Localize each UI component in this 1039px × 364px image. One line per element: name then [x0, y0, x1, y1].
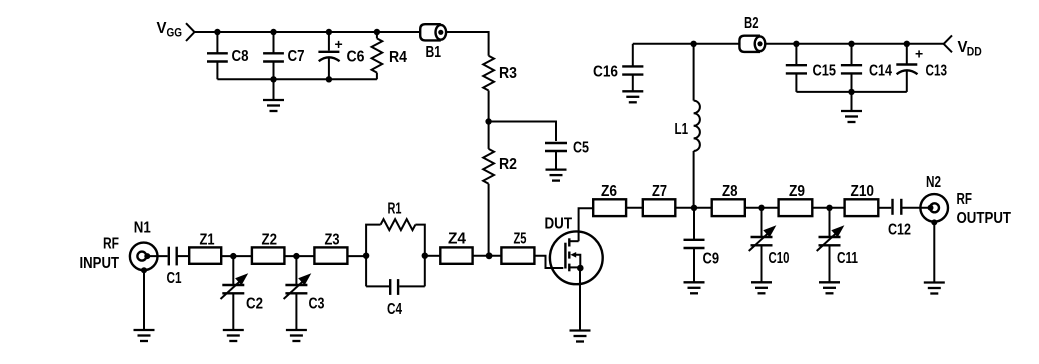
resistor R4: [372, 32, 383, 79]
svg-text:C7: C7: [288, 48, 305, 65]
svg-text:C5: C5: [573, 140, 589, 157]
connector N2: [920, 194, 948, 225]
capacitor C15: [786, 44, 807, 92]
impedance Z6: [593, 199, 626, 216]
svg-text:V: V: [157, 20, 167, 37]
wire C1 to Z1: [177, 255, 189, 257]
capacitor C16: [622, 44, 643, 92]
impedance Z1: [189, 247, 221, 263]
node C14 top: [848, 41, 854, 47]
svg-text:N1: N1: [134, 220, 151, 237]
wire R1/C4 left branch: [366, 225, 381, 287]
svg-text:C8: C8: [232, 48, 249, 65]
node C8 top: [214, 29, 220, 35]
node R1/C4 right: [422, 253, 428, 259]
svg-text:RF: RF: [957, 191, 973, 208]
resistor R1: [381, 219, 416, 230]
svg-text:C16: C16: [593, 64, 618, 81]
svg-text:C10: C10: [769, 250, 790, 267]
variable capacitor C11: [817, 208, 845, 282]
node R3/R2/C5: [485, 118, 491, 124]
node R4 top: [374, 29, 380, 35]
svg-text:Z3: Z3: [325, 232, 340, 249]
wire node to R2: [488, 122, 490, 149]
wire R2 down to input line: [488, 184, 490, 256]
svg-text:R3: R3: [499, 65, 517, 82]
ground V_GG rail: [263, 100, 284, 111]
wire Z5 to DUT gate: [534, 256, 563, 268]
capacitor C13 (polarized): [896, 44, 917, 92]
wire Z8 to Z9: [745, 207, 779, 209]
ground N1: [134, 330, 155, 341]
ground C11: [819, 282, 840, 293]
capacitor C9: [684, 208, 705, 282]
wire L1 lower: [693, 151, 695, 208]
svg-text:C13: C13: [926, 63, 948, 80]
svg-text:C3: C3: [309, 296, 325, 313]
connector N1: [130, 243, 158, 274]
capacitor C5: [545, 143, 567, 170]
svg-text:R4: R4: [389, 49, 407, 66]
wire Z6 to Z7: [626, 207, 643, 209]
node C7 top: [270, 29, 276, 35]
capacitor C4: [390, 279, 398, 295]
wire R1/C4 right branch: [415, 225, 424, 287]
variable capacitor C2: [221, 256, 249, 330]
ground DUT source: [570, 331, 591, 342]
svg-text:C1: C1: [167, 270, 182, 287]
node bottom rail C7: [270, 76, 276, 82]
wire B1 to corner and down to R3: [445, 32, 488, 56]
svg-text:C11: C11: [837, 250, 858, 267]
svg-text:+: +: [915, 46, 923, 62]
impedance Z5: [501, 247, 534, 263]
transistor DUT (MOSFET): [550, 208, 603, 284]
svg-text:B2: B2: [744, 15, 759, 32]
node C13 top: [904, 41, 910, 47]
wire DUT source to ground: [579, 268, 581, 331]
impedance Z2: [252, 247, 285, 263]
inductor L1: [694, 101, 700, 151]
svg-text:Z1: Z1: [200, 232, 215, 249]
node C2: [230, 253, 236, 259]
node R2 junction: [486, 252, 493, 259]
svg-text:R2: R2: [499, 156, 517, 173]
capacitor C7: [263, 32, 284, 79]
svg-text:Z5: Z5: [514, 231, 527, 248]
svg-text:Z7: Z7: [652, 183, 667, 200]
node C11: [826, 205, 832, 211]
wire N2 to ground: [933, 222, 935, 282]
wire node to Z4: [425, 255, 441, 257]
svg-text:GG: GG: [167, 26, 183, 40]
capacitor C14: [841, 44, 862, 92]
ground C10: [751, 282, 772, 293]
capacitor C6 (polarized): [318, 32, 339, 79]
svg-text:OUTPUT: OUTPUT: [957, 210, 1012, 227]
svg-text:B1: B1: [426, 44, 442, 61]
ground C5: [546, 170, 567, 181]
ferrite bead B1: [420, 24, 446, 40]
wire Z4 to Z5: [473, 255, 502, 257]
ground C2: [223, 330, 244, 341]
svg-text:N2: N2: [926, 174, 941, 191]
ground C3: [286, 330, 307, 341]
resistor R2: [483, 149, 494, 184]
svg-text:C15: C15: [813, 63, 837, 80]
svg-text:C4: C4: [387, 301, 402, 318]
node C10: [758, 205, 764, 211]
wire V_GG rail: [195, 31, 421, 33]
wire L1 upper: [693, 44, 695, 101]
svg-text:Z2: Z2: [262, 232, 278, 249]
svg-text:C6: C6: [347, 49, 365, 66]
node L1/C9: [691, 205, 697, 211]
capacitor C1: [169, 247, 177, 266]
capacitor C12: [893, 199, 902, 215]
wire Z1 to Z2: [221, 255, 252, 257]
wire node to C5: [489, 122, 556, 142]
impedance Z8: [712, 199, 745, 216]
wire C4 left: [366, 285, 389, 287]
ground V_DD rail: [841, 111, 862, 122]
ground N2: [924, 283, 945, 294]
wire ground stem V_DD rail: [851, 92, 853, 111]
impedance Z3: [314, 247, 347, 263]
svg-text:Z6: Z6: [601, 183, 617, 200]
impedance Z10: [845, 199, 879, 216]
wire Z7 to Z8: [675, 207, 711, 209]
ferrite bead B2: [739, 36, 765, 52]
wire B2 to V_DD terminal: [765, 43, 944, 45]
V_DD input chevron: [944, 35, 952, 52]
wire Z2 to Z3: [284, 255, 314, 257]
svg-text:RF: RF: [103, 236, 119, 253]
ground C9: [684, 282, 705, 293]
node C15 top: [793, 41, 799, 47]
impedance Z9: [779, 199, 813, 216]
svg-text:C9: C9: [703, 251, 720, 268]
capacitor C8: [207, 32, 228, 79]
wire Z10 to C12: [878, 207, 891, 209]
wire V_GG bypass bottom rail: [217, 78, 377, 80]
wire C4 right: [399, 285, 425, 287]
wire ground stem V_GG rail: [273, 79, 275, 100]
svg-text:Z4: Z4: [448, 231, 466, 248]
ground C16: [622, 91, 643, 102]
svg-text:Z9: Z9: [789, 183, 805, 200]
node bottom rail ground: [848, 89, 854, 95]
impedance Z4: [440, 247, 472, 263]
V_GG input chevron: [186, 23, 195, 41]
svg-text:C12: C12: [888, 222, 911, 239]
svg-text:DUT: DUT: [545, 216, 573, 233]
node R1/C4 left: [363, 253, 369, 259]
wire N1 to ground: [143, 270, 145, 330]
resistor R3: [483, 56, 494, 91]
svg-text:Z10: Z10: [851, 183, 875, 200]
wire V_DD rail: [633, 43, 740, 45]
wire N1 to C1: [147, 255, 167, 257]
variable capacitor C3: [284, 256, 312, 330]
svg-text:DD: DD: [967, 45, 982, 59]
node C6 top: [326, 29, 332, 35]
svg-text:Z8: Z8: [722, 183, 738, 200]
node L1 top: [690, 41, 696, 47]
wire R3 to node: [488, 91, 490, 122]
svg-text:L1: L1: [675, 121, 689, 138]
impedance Z7: [643, 199, 676, 216]
svg-text:INPUT: INPUT: [80, 255, 120, 272]
node C3: [293, 253, 299, 259]
svg-text:C2: C2: [246, 296, 263, 313]
wire V_DD bypass bottom rail: [796, 91, 906, 93]
wire Z9 to Z10: [812, 207, 844, 209]
wire Z3 to R1/C4 node: [347, 255, 366, 257]
svg-text:C14: C14: [869, 63, 892, 80]
svg-text:+: +: [335, 36, 343, 52]
node bottom rail C6: [326, 76, 332, 82]
variable capacitor C10: [749, 208, 777, 282]
wire C12 to N2: [903, 207, 931, 209]
svg-text:R1: R1: [388, 201, 402, 218]
